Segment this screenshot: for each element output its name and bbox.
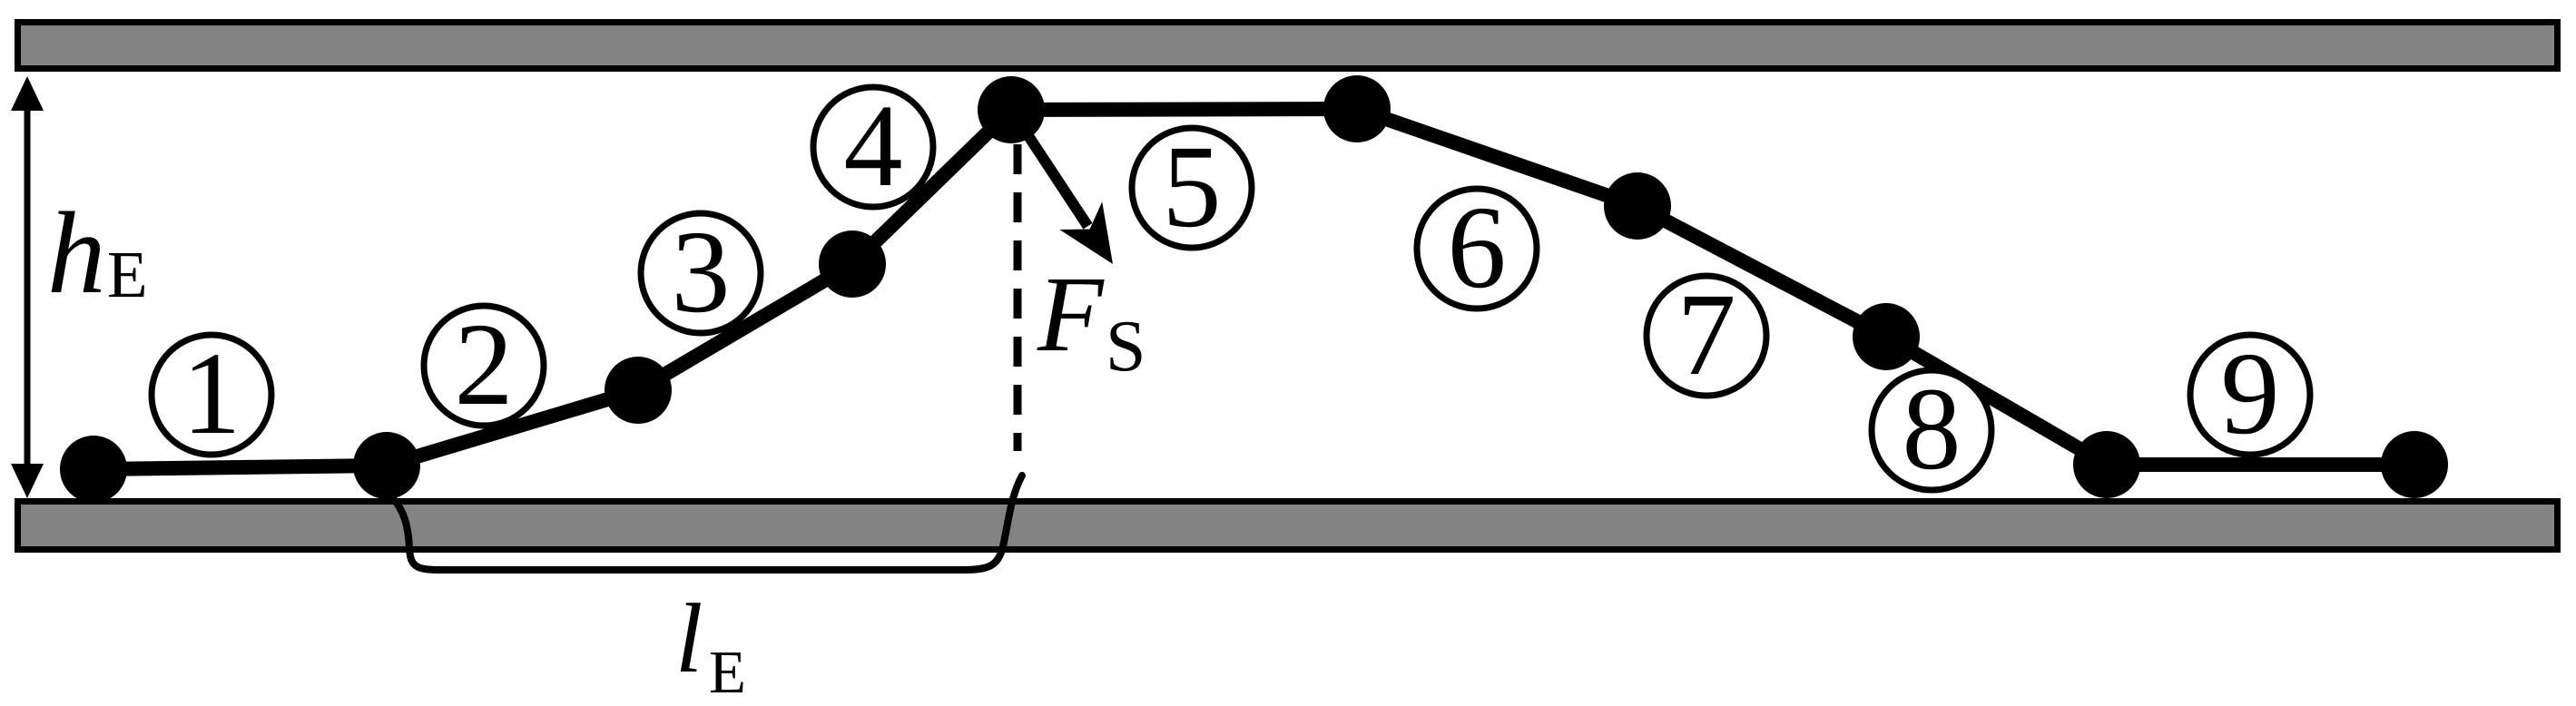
svg-text:F: F: [1037, 254, 1105, 374]
segment label badge 3: [641, 207, 761, 338]
svg-text:E: E: [107, 238, 148, 311]
svg-text:8: 8: [1903, 364, 1961, 495]
segment label badge 5: [1132, 122, 1252, 252]
chain node 9: [2073, 431, 2140, 498]
bottom wall plate: [18, 502, 2558, 550]
dimension arrow h_E: [11, 76, 44, 498]
chain node 5: [978, 76, 1045, 143]
segment label badge 1: [152, 328, 271, 459]
segment label badge 4: [813, 81, 933, 211]
svg-text:E: E: [709, 639, 746, 706]
svg-text:l: l: [675, 583, 703, 693]
segment label badge 2: [424, 299, 544, 430]
dashed drop line from peak: [1014, 144, 1022, 451]
chain node 7: [1604, 172, 1671, 240]
segment label badge 6: [1417, 182, 1537, 313]
svg-text:6: 6: [1448, 182, 1507, 313]
svg-text:4: 4: [844, 81, 903, 211]
top wall plate: [18, 23, 2558, 69]
segment label badge 7: [1647, 270, 1766, 400]
chain node 4: [819, 230, 886, 298]
chain node 6: [1323, 75, 1391, 142]
extent bracket l_E: [392, 476, 1022, 570]
svg-text:1: 1: [182, 328, 241, 459]
chain node 8: [1853, 303, 1920, 370]
svg-text:7: 7: [1677, 270, 1736, 400]
segment label badge 9: [2190, 328, 2310, 459]
svg-text:5: 5: [1163, 122, 1222, 252]
svg-text:3: 3: [672, 207, 731, 338]
chain node 3: [605, 357, 672, 424]
chain polyline: [93, 109, 2414, 469]
chain node 10: [2381, 431, 2448, 498]
svg-text:h: h: [47, 188, 106, 318]
svg-text:9: 9: [2221, 328, 2280, 459]
svg-text:S: S: [1106, 307, 1146, 387]
force arrow F_S: [1011, 110, 1088, 226]
svg-text:2: 2: [455, 299, 514, 430]
segment label badge 8: [1872, 364, 1991, 495]
chain node 2: [353, 432, 420, 499]
chain node 1: [60, 436, 127, 503]
